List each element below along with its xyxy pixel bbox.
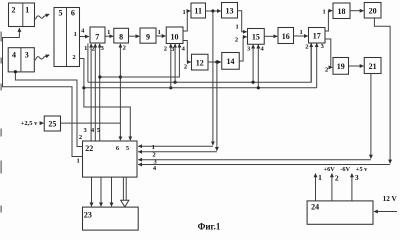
svg-text:12: 12 (196, 58, 204, 67)
svg-text:4: 4 (261, 46, 265, 53)
scan edge artifact left (0, 32, 2, 213)
svg-text:1: 1 (107, 29, 110, 36)
svg-text:+2,5 v: +2,5 v (21, 120, 38, 127)
junction node on 11-13 wire (211, 9, 214, 12)
wire 15 to 16 (264, 35, 277, 37)
svg-text:1: 1 (158, 29, 161, 36)
block 10 (166, 27, 183, 44)
wire block10 pin3 down to bus2 (174, 44, 176, 82)
svg-text:7: 7 (95, 33, 99, 42)
junction on bus3 at block15 pin4 wire (257, 86, 260, 89)
wire block7 pin1 down to block22 top pin3 (90, 44, 92, 143)
svg-text:2: 2 (79, 134, 82, 141)
wire block15 pin4 down to bus3 (257, 45, 259, 88)
junction on bus1 at block8 pin2 wire (119, 75, 122, 78)
wire block21 bottom down to block22 pin3 bus (370, 74, 372, 159)
svg-text:1: 1 (84, 45, 87, 52)
svg-text:3: 3 (25, 50, 29, 59)
svg-text:20: 20 (369, 7, 377, 16)
svg-text:19: 19 (337, 62, 345, 71)
svg-text:3: 3 (101, 45, 105, 52)
wire block10 out2 down to block 12 (183, 41, 191, 63)
block 8 (114, 28, 129, 43)
svg-text:4: 4 (153, 165, 157, 172)
svg-text:1: 1 (318, 173, 322, 182)
svg-text:3: 3 (355, 173, 359, 182)
vertical from 12-14 junction down to block22 pin2 bus (216, 62, 218, 151)
vertical from 11-13 junction down to block22 pin1 bus (212, 11, 214, 145)
junction node on 12-14 wire (215, 60, 218, 63)
svg-text:2: 2 (72, 54, 75, 61)
svg-text:1: 1 (25, 6, 29, 15)
short wire from block7 bottom to left end of bus2 (87, 44, 89, 83)
junction on bus3 at block10 pin2 wire (169, 86, 172, 89)
junction on bus2 at block10 pin3 wire (174, 81, 177, 84)
svg-text:15: 15 (252, 33, 260, 42)
svg-text:+6V: +6V (324, 166, 336, 173)
svg-text:12 V: 12 V (383, 194, 398, 203)
bus1 wire with corner up into block10 pin4 (100, 44, 179, 77)
svg-text:Фиг.1: Фиг.1 (198, 222, 221, 232)
wire block24 output 2 (-6V) (331, 174, 333, 201)
wire block7 pin2 down to block22 top pin4 (94, 44, 96, 143)
junction on bus1 at block7 pin3 wire (98, 75, 101, 78)
svg-text:1: 1 (152, 144, 155, 151)
wire bus2 up into block17 pin2 (310, 43, 312, 82)
wire 5/6 pin1 to block 7 (80, 36, 89, 38)
svg-text:9: 9 (146, 33, 150, 42)
svg-text:2: 2 (91, 45, 94, 52)
radio link squiggle 1 (36, 14, 50, 19)
svg-text:3: 3 (171, 46, 175, 53)
bus pin1 into block22 (138, 145, 213, 147)
block 17 (309, 28, 326, 44)
block 13 (222, 3, 238, 19)
wire 12V supply into block 24 (374, 211, 397, 213)
block 9 (140, 28, 156, 43)
block 15 (248, 29, 265, 45)
hollow bus arrow from 22 to 23 (121, 177, 129, 207)
svg-text:18: 18 (338, 7, 346, 16)
block 23 (83, 207, 139, 230)
bus pin3 into block22 (138, 159, 371, 161)
block 25 (44, 116, 60, 131)
wire block15 pin3 down to bus2 (252, 45, 254, 82)
wire 11 to 13 (206, 10, 221, 12)
wire from block22 pin1 (left) up and around to block 2|1 (3, 28, 83, 156)
wire 16 to 17 (294, 35, 308, 37)
svg-text:16: 16 (282, 32, 290, 41)
radio link squiggle 2 (35, 55, 49, 60)
svg-text:17: 17 (313, 32, 321, 41)
svg-text:14: 14 (227, 57, 235, 66)
svg-text:4: 4 (91, 127, 95, 134)
block 7 (90, 27, 105, 43)
wire block24 output 1 (+6V) (315, 174, 317, 201)
svg-text:1: 1 (323, 8, 326, 15)
wire 12 to 14 (208, 61, 221, 63)
svg-text:24: 24 (311, 203, 319, 212)
svg-text:+5 v: +5 v (356, 166, 368, 173)
junction at block 4|3 bottom (14, 70, 17, 73)
wire block8 pin2 up segment (119, 44, 121, 77)
junction on bus3 at block5/6 pin2 wire (82, 86, 85, 89)
svg-text:3: 3 (83, 127, 87, 134)
svg-text:25: 25 (48, 119, 56, 128)
svg-text:1: 1 (235, 23, 238, 30)
svg-text:22: 22 (85, 144, 93, 153)
wire bus3 up into block17 pin3 (316, 43, 318, 87)
svg-text:6: 6 (71, 9, 75, 18)
wire 14 to 15 (input 2) (239, 37, 246, 61)
wire block9 to block10 (156, 35, 166, 37)
svg-text:10: 10 (171, 32, 179, 41)
block 20 (364, 3, 381, 19)
svg-text:1: 1 (182, 9, 185, 16)
svg-text:1: 1 (76, 157, 79, 164)
svg-text:3: 3 (321, 43, 325, 50)
wire block7 pin3 down to block22 top pin5 (99, 44, 101, 143)
svg-text:1: 1 (74, 31, 77, 38)
svg-text:-6V: -6V (340, 166, 350, 173)
svg-text:2: 2 (123, 45, 126, 52)
wire 19 to 21 (349, 65, 364, 67)
wire 18 to 20 (350, 10, 364, 12)
svg-text:2: 2 (235, 36, 238, 43)
wire block7 to block8 (105, 35, 113, 37)
wire block20 bottom around right side down to block22 pin4 bus (374, 18, 390, 163)
bus pin4 into block22 (138, 164, 390, 166)
block 19 (333, 58, 349, 75)
block 12 (192, 54, 209, 70)
block 2|1 (transmitter unit) (9, 3, 35, 27)
svg-text:4: 4 (182, 45, 186, 52)
block 21 (364, 58, 381, 74)
svg-text:4: 4 (12, 50, 16, 59)
svg-text:21: 21 (369, 62, 377, 71)
svg-text:2: 2 (184, 64, 187, 71)
svg-text:8: 8 (119, 33, 123, 42)
wire block22 to block23 no.1 (91, 177, 93, 206)
bus pin2 into block22 (138, 151, 217, 153)
block 5|6 (receiver, tall box) (54, 8, 80, 67)
block 14 (222, 53, 240, 70)
wire 17 up to 18 (325, 11, 332, 31)
block 11 (191, 3, 206, 18)
wire block24 output 3 (+5V) (351, 174, 353, 201)
block 16 (278, 28, 294, 44)
wire block5/6 pin2 down and over to block22 pin5 (80, 59, 131, 141)
svg-text:2: 2 (305, 44, 308, 51)
wire from block22 pin2 (left) up to block 4|3 bottom (15, 72, 82, 147)
svg-text:4: 4 (81, 28, 85, 35)
svg-text:5: 5 (59, 9, 63, 18)
block 24 (307, 201, 373, 224)
svg-text:2: 2 (164, 45, 167, 52)
wire 13 to 15 (input 1) (238, 11, 247, 32)
wire block22 to block23 no.2 (100, 177, 102, 206)
svg-text:2: 2 (152, 151, 155, 158)
block 4|3 (8, 48, 34, 72)
svg-text:23: 23 (84, 210, 92, 219)
svg-text:2: 2 (335, 174, 339, 183)
wire block22 to block23 no.3 (111, 177, 113, 206)
svg-text:2: 2 (12, 6, 16, 15)
wire block8 to block9 (129, 35, 140, 37)
svg-text:3: 3 (247, 46, 251, 53)
svg-text:13: 13 (226, 7, 234, 16)
svg-text:1: 1 (299, 29, 302, 36)
wire block10 pin2 down to bus3 (170, 44, 172, 88)
block 22 (large) (83, 141, 138, 177)
svg-text:11: 11 (194, 7, 202, 16)
wire block8 pin2 down to block22 pin6 (119, 77, 121, 140)
wire block10 out1 up to block 11 (183, 11, 190, 31)
wire block25 to pin6 feeder (61, 122, 121, 124)
svg-text:2: 2 (325, 66, 328, 73)
block 18 (333, 3, 350, 19)
bus3 horizontal wire (84, 87, 317, 89)
bus2 horizontal wire (88, 43, 311, 82)
junction on bus2 at block15 pin3 wire (252, 81, 255, 84)
wire 17 down to 19 (325, 39, 332, 67)
